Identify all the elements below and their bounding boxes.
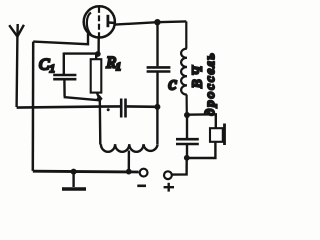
node tank top [154,104,160,110]
vacuum tube V1 [84,6,115,38]
node ground tap [71,169,77,175]
ground [62,172,86,189]
node R1 bottom junction [97,95,103,103]
filament [87,13,91,35]
wire bottom (to minus terminal) [33,170,139,174]
node coil tap on bottom wire [126,169,132,175]
svg-text:c: c [168,74,177,95]
wire loop bottom [64,97,99,100]
wire left vertical (cathode to bottom) [32,42,35,171]
node grid / R1 top [95,51,101,57]
wire anode (plate) to choke [115,21,186,24]
wire loop top [64,52,98,54]
RF choke L2 [181,21,187,114]
resistor R1 [91,55,102,98]
label VCh drossel [190,52,218,116]
node phones bottom [184,155,190,161]
coupling capacitor (series, in grid wire) [99,99,157,118]
grid (dashed) [98,7,100,38]
svg-text:дроссель: дроссель [202,52,217,116]
wire cathode lead [33,34,88,45]
wire antenna to tank (grid node) [17,107,99,108]
terminal minus [137,169,147,186]
capacitor C (feedback, vertical branch) [147,22,171,107]
wire junction down to coil [99,99,102,145]
tank coil L1 [101,106,158,152]
node choke bottom [184,112,190,118]
node plate / C feedback top [154,19,160,25]
svg-text:R1: R1 [106,55,121,74]
capacitor C1 [53,53,76,97]
wire choke to phones top [187,114,216,127]
anode plate [107,15,110,27]
wire plus terminal to plate circuit [172,159,187,175]
wire phones bottom [187,142,216,158]
svg-text:C1: C1 [39,57,55,76]
ink speck [107,108,110,111]
blocking capacitor (across phones) [176,115,199,158]
headphone BF1 [210,124,225,146]
wire coil tap [128,151,130,172]
antenna [9,24,24,107]
terminal plus [164,171,174,191]
grid lead wire [97,39,99,54]
